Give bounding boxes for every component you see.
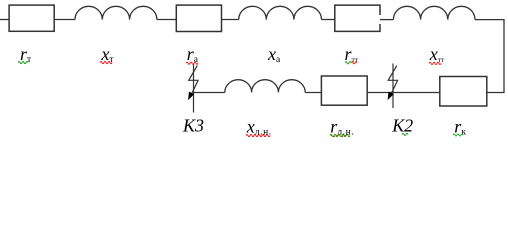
squiggle under r_к (green) (453, 134, 463, 136)
squiggle under r_тт (green+red) (345, 62, 351, 64)
squiggle under x_тт (red) (429, 62, 441, 64)
squiggle under x_л.н. (red) (246, 135, 270, 137)
fault К2 lightning bolt (388, 66, 397, 98)
svg-text:rа: rа (187, 44, 199, 65)
wire x_а to r_тт (322, 19, 335, 21)
svg-text:К2: К2 (391, 116, 413, 136)
wire top right corner down to bottom row (475, 20, 504, 93)
wire r_т to x_т (54, 19, 75, 21)
inductor x_тт (393, 6, 475, 19)
resistor r_тт (with gap in right edge) (335, 5, 380, 31)
svg-text:xт: xт (100, 44, 114, 65)
inductor x_т (75, 6, 157, 19)
wire r_тт to x_тт (380, 19, 393, 21)
fault К3 lightning bolt (189, 66, 198, 98)
squiggle under r_т (green) (18, 61, 28, 63)
svg-text:xтт: xтт (429, 44, 445, 64)
squiggle under x_т (red) (100, 61, 112, 63)
resistor r_л.н. (321, 76, 367, 105)
svg-text:xа: xа (267, 44, 281, 65)
wire К3 to x_л.н. (194, 92, 225, 94)
fault К3 vertical stub (193, 65, 195, 113)
wire r_л.н. to r_к through К2 (367, 92, 440, 94)
squiggle under К2 (green) (402, 133, 408, 135)
wire r_а to x_а (222, 19, 239, 21)
inductor x_а (239, 6, 322, 19)
resistor r_а (176, 5, 221, 31)
svg-text:rтт: rтт (345, 44, 359, 64)
wire left lead into r_t (0, 19, 9, 21)
inductor x_л.н. (225, 80, 305, 93)
fault К3 arrowhead (189, 92, 194, 99)
fault К2 arrowhead (388, 92, 393, 99)
resistor r_к (440, 77, 487, 107)
wire x_т to r_а (157, 19, 176, 21)
svg-text:К3: К3 (182, 116, 204, 136)
fault К2 vertical stub (392, 64, 394, 109)
squiggle under r_л.н. (green) (330, 135, 350, 137)
wire x_л.н. to r_л.н. (305, 92, 321, 94)
squiggle under r_а (red) (186, 62, 198, 64)
resistor r_т (transformer resistance) (9, 5, 54, 31)
svg-text:rк: rк (454, 117, 466, 138)
